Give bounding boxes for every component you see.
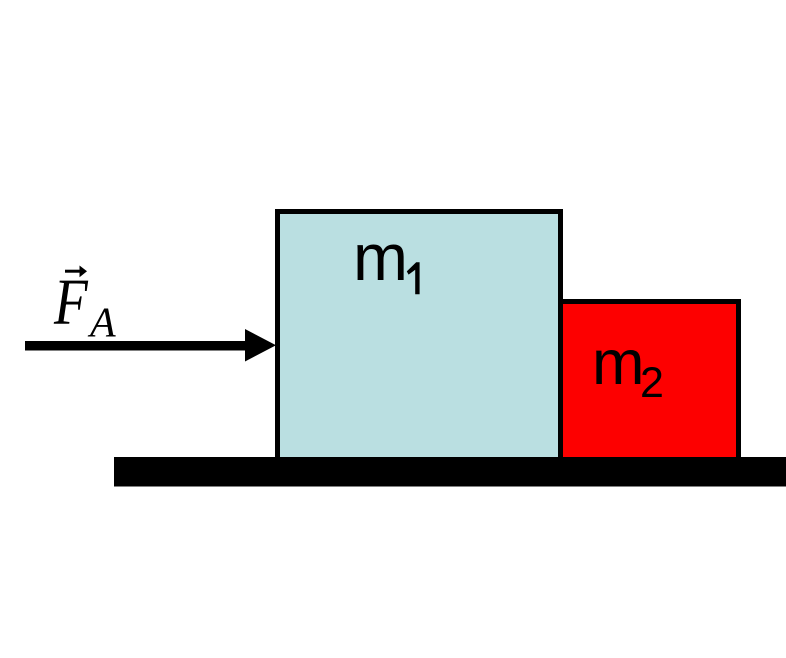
ground surface: [114, 457, 786, 487]
force arrow F_A shaft: [25, 341, 247, 351]
svg-text:2: 2: [640, 359, 664, 407]
svg-text:F: F: [53, 267, 89, 339]
label subscript A: [87, 301, 116, 347]
block m1 (light blue): [278, 212, 561, 462]
svg-text:m: m: [592, 328, 644, 398]
vector arrow over F: [65, 266, 87, 278]
label F (vector force symbol): [53, 267, 89, 339]
label m1 subscript 1 (drawn, Arial-style without foot serif): [407, 262, 420, 294]
block m2 (red): [561, 302, 739, 462]
label m1 text: [353, 220, 408, 294]
svg-text:A: A: [87, 301, 116, 347]
label m2 text: [592, 328, 664, 407]
svg-text:m: m: [353, 220, 408, 294]
force arrow F_A head: [245, 329, 276, 362]
